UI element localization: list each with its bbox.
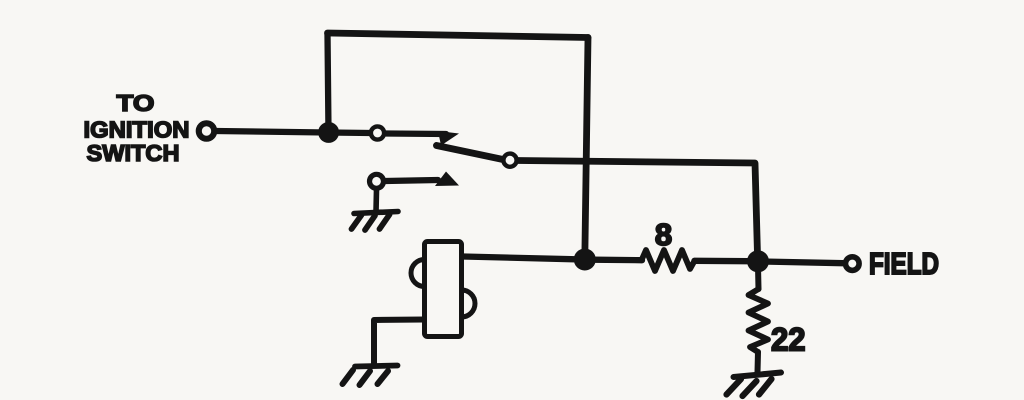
svg-text:8: 8	[655, 217, 672, 252]
svg-text:IGNITION: IGNITION	[84, 117, 190, 143]
svg-text:SWITCH: SWITCH	[87, 140, 180, 166]
svg-text:22: 22	[771, 322, 806, 358]
svg-text:TO: TO	[117, 90, 155, 116]
svg-text:FIELD: FIELD	[869, 247, 939, 281]
